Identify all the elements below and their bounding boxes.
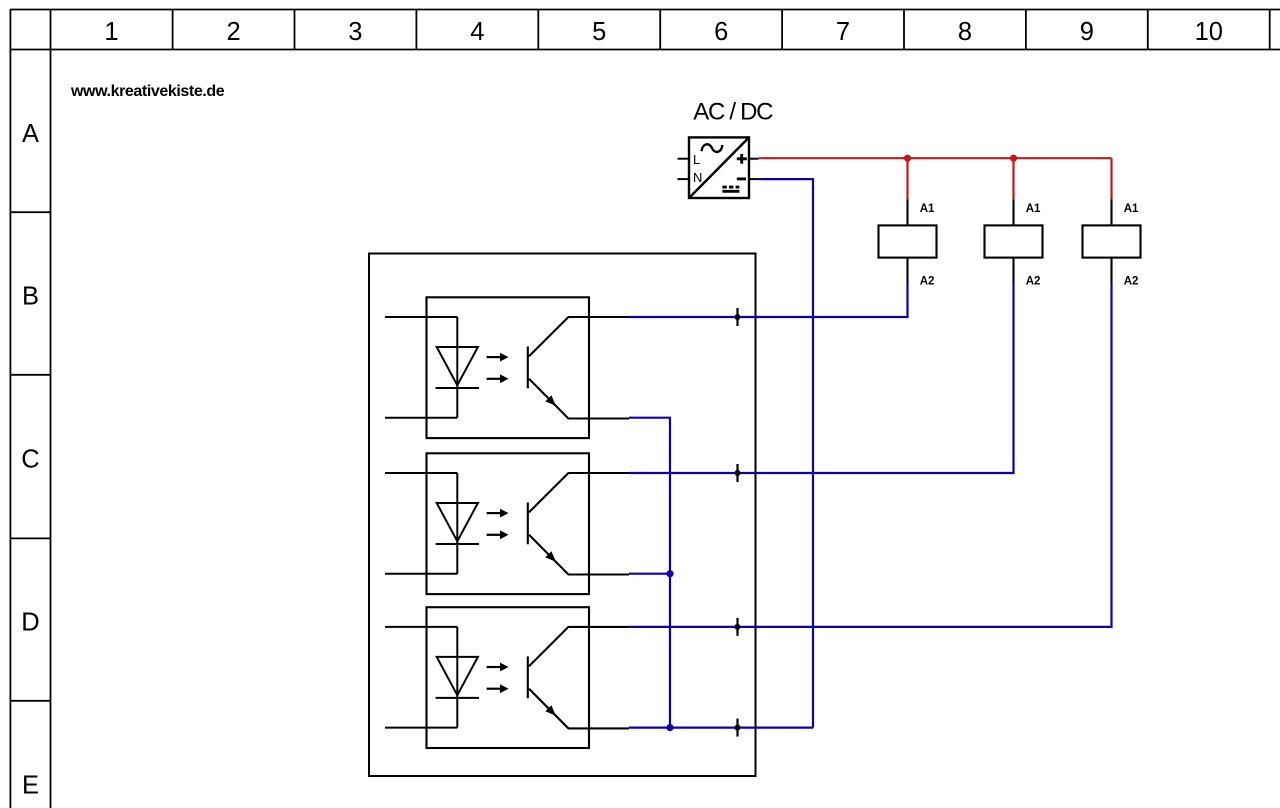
pin stub OK2 anode input [385, 472, 457, 474]
phototransistor Q2 inside OK2 [528, 473, 629, 575]
wire blue - from supply to bottom rail [759, 179, 813, 728]
svg-text:5: 5 [592, 18, 606, 46]
svg-text:www.kreativekiste.de: www.kreativekiste.de [70, 83, 225, 100]
wire blue bottom rail OK3 emitter [629, 726, 813, 728]
svg-text:7: 7 [836, 18, 850, 46]
power supply U1 AC/DC converter [689, 137, 749, 198]
light emission arrows OK2 [487, 509, 509, 540]
svg-text:A1: A1 [1124, 203, 1139, 215]
light emission arrows OK3 [487, 663, 509, 694]
wire red drop to K1 [906, 158, 908, 199]
pin stub L input [678, 158, 690, 160]
LED D2 inside OK2 [436, 473, 479, 574]
optocoupler OK2 body [427, 453, 590, 594]
svg-text:A2: A2 [920, 276, 935, 288]
wire blue OK3 collector to K3 A2 [629, 283, 1112, 627]
LED D1 inside OK1 [436, 317, 479, 418]
svg-text:8: 8 [958, 18, 972, 46]
wire red drop to K2 [1012, 158, 1014, 199]
svg-text:A1: A1 [1026, 203, 1041, 215]
wire blue OK1 collector to K1 A2 [629, 283, 908, 317]
pin stub OK2 cathode input [385, 573, 457, 575]
svg-text:9: 9 [1080, 18, 1094, 46]
svg-text:6: 6 [714, 18, 728, 46]
phototransistor Q1 inside OK1 [528, 317, 629, 419]
pin stub + output [749, 158, 759, 160]
pin stub OK1 anode input [385, 316, 457, 318]
svg-text:4: 4 [470, 18, 484, 46]
emitter arrowhead Q3 [545, 705, 556, 716]
junction node + rail / K2 [1010, 155, 1017, 162]
svg-text:A2: A2 [1124, 276, 1139, 288]
terminal X1 feed-through [735, 308, 741, 326]
relay coil K3 [1083, 200, 1141, 284]
wire blue OK2 collector to K2 A2 [629, 283, 1014, 473]
svg-text:A1: A1 [920, 203, 935, 215]
relay coil K1 [879, 200, 937, 284]
phototransistor Q3 inside OK3 [528, 627, 629, 729]
wire red + rail horizontal [759, 157, 1112, 159]
svg-text:A2: A2 [1026, 276, 1041, 288]
svg-text:C: C [21, 446, 39, 474]
svg-text:L: L [693, 152, 700, 167]
svg-text:E: E [22, 772, 39, 800]
svg-text:A: A [22, 120, 39, 148]
terminal X2 feed-through [735, 464, 741, 482]
pin stub - output [749, 178, 759, 180]
junction node OK3 emitter / common [666, 724, 673, 731]
svg-text:1: 1 [104, 18, 118, 46]
svg-text:AC / DC: AC / DC [693, 99, 773, 126]
wire blue OK1 emitter down common [629, 418, 670, 728]
pin stub N input [678, 178, 690, 180]
emitter arrowhead Q1 [545, 395, 556, 406]
svg-text:D: D [21, 609, 39, 637]
terminal X4 feed-through [735, 719, 741, 737]
svg-text:N: N [693, 170, 702, 185]
svg-text:B: B [22, 283, 39, 311]
enclosure: opto-isolator input module boundary [369, 254, 756, 777]
optocoupler OK3 body [427, 607, 590, 748]
emitter arrowhead Q2 [545, 551, 556, 562]
wire blue OK2 emitter stub [629, 573, 670, 575]
relay coil K2 [985, 200, 1043, 284]
wire red drop to K3 [1110, 158, 1112, 199]
svg-text:3: 3 [348, 18, 362, 46]
junction node + rail / K1 [904, 155, 911, 162]
pin stub OK1 cathode input [385, 417, 457, 419]
pin stub OK3 anode input [385, 626, 457, 628]
pin stub OK3 cathode input [385, 727, 457, 729]
svg-text:10: 10 [1195, 18, 1223, 46]
terminal X3 feed-through [735, 618, 741, 636]
junction node OK2 emitter / common [666, 570, 673, 577]
optocoupler OK1 body [427, 297, 590, 438]
svg-text:2: 2 [227, 18, 241, 46]
light emission arrows OK1 [487, 353, 509, 384]
LED D3 inside OK3 [436, 627, 479, 728]
